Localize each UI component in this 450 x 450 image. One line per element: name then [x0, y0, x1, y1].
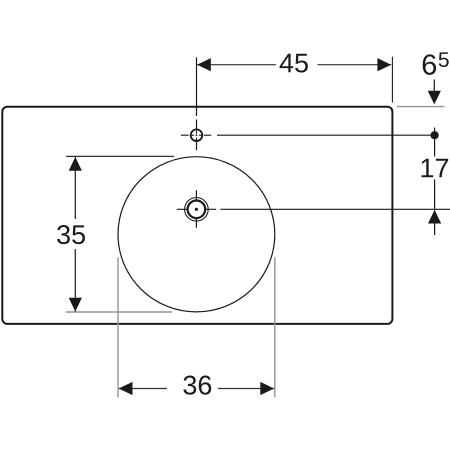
dim 45 arrow left: [197, 58, 211, 71]
dim 45 line: [197, 64, 391, 66]
dim 36 extension line right grey: [274, 257, 276, 397]
top edge extension line grey: [397, 106, 445, 108]
dim 35 label: [57, 225, 85, 244]
dim 36 arrow right: [260, 382, 274, 395]
drain centerline horizontal: [177, 208, 450, 210]
dim 45 label: [280, 54, 308, 73]
dim 65 arrow stem: [433, 80, 435, 92]
centerline vertical through tap hole: [196, 57, 198, 150]
drain hole ring: [188, 201, 206, 219]
tap hole centerline stubs: [191, 131, 202, 141]
drain centerline vertical: [195, 190, 197, 228]
dim 45 arrow right: [377, 58, 391, 71]
drain outer circle: [185, 198, 209, 222]
dim 35 arrow down: [69, 298, 82, 312]
dim 36 label: [183, 376, 211, 395]
dim 45 extension line right: [391, 57, 393, 103]
dim 17 arrow up: [428, 210, 441, 224]
dim 36 extension line left grey: [117, 257, 119, 397]
drain center dot: [195, 208, 198, 211]
tap hole: [191, 129, 203, 141]
basin bowl circle: [118, 157, 275, 312]
dim 35 tick bottom grey: [66, 311, 172, 313]
dim 17 start dot: [431, 131, 439, 139]
dim 17 label: [422, 159, 449, 178]
dim 65 label: [423, 54, 436, 75]
washbasin outline: [2, 107, 392, 324]
tap hole center dot: [196, 134, 198, 136]
dim 65 arrow down: [428, 91, 441, 105]
dim 35 tick top: [66, 155, 174, 157]
dim 36 arrow left: [119, 382, 133, 395]
dim 17 line: [434, 128, 436, 236]
dim 36 line: [119, 388, 274, 390]
dim 35 arrow up: [69, 157, 82, 171]
dim 65 superscript: [439, 52, 449, 67]
tap hole centerline horizontal: [181, 134, 431, 136]
dim 35 line: [74, 157, 76, 312]
